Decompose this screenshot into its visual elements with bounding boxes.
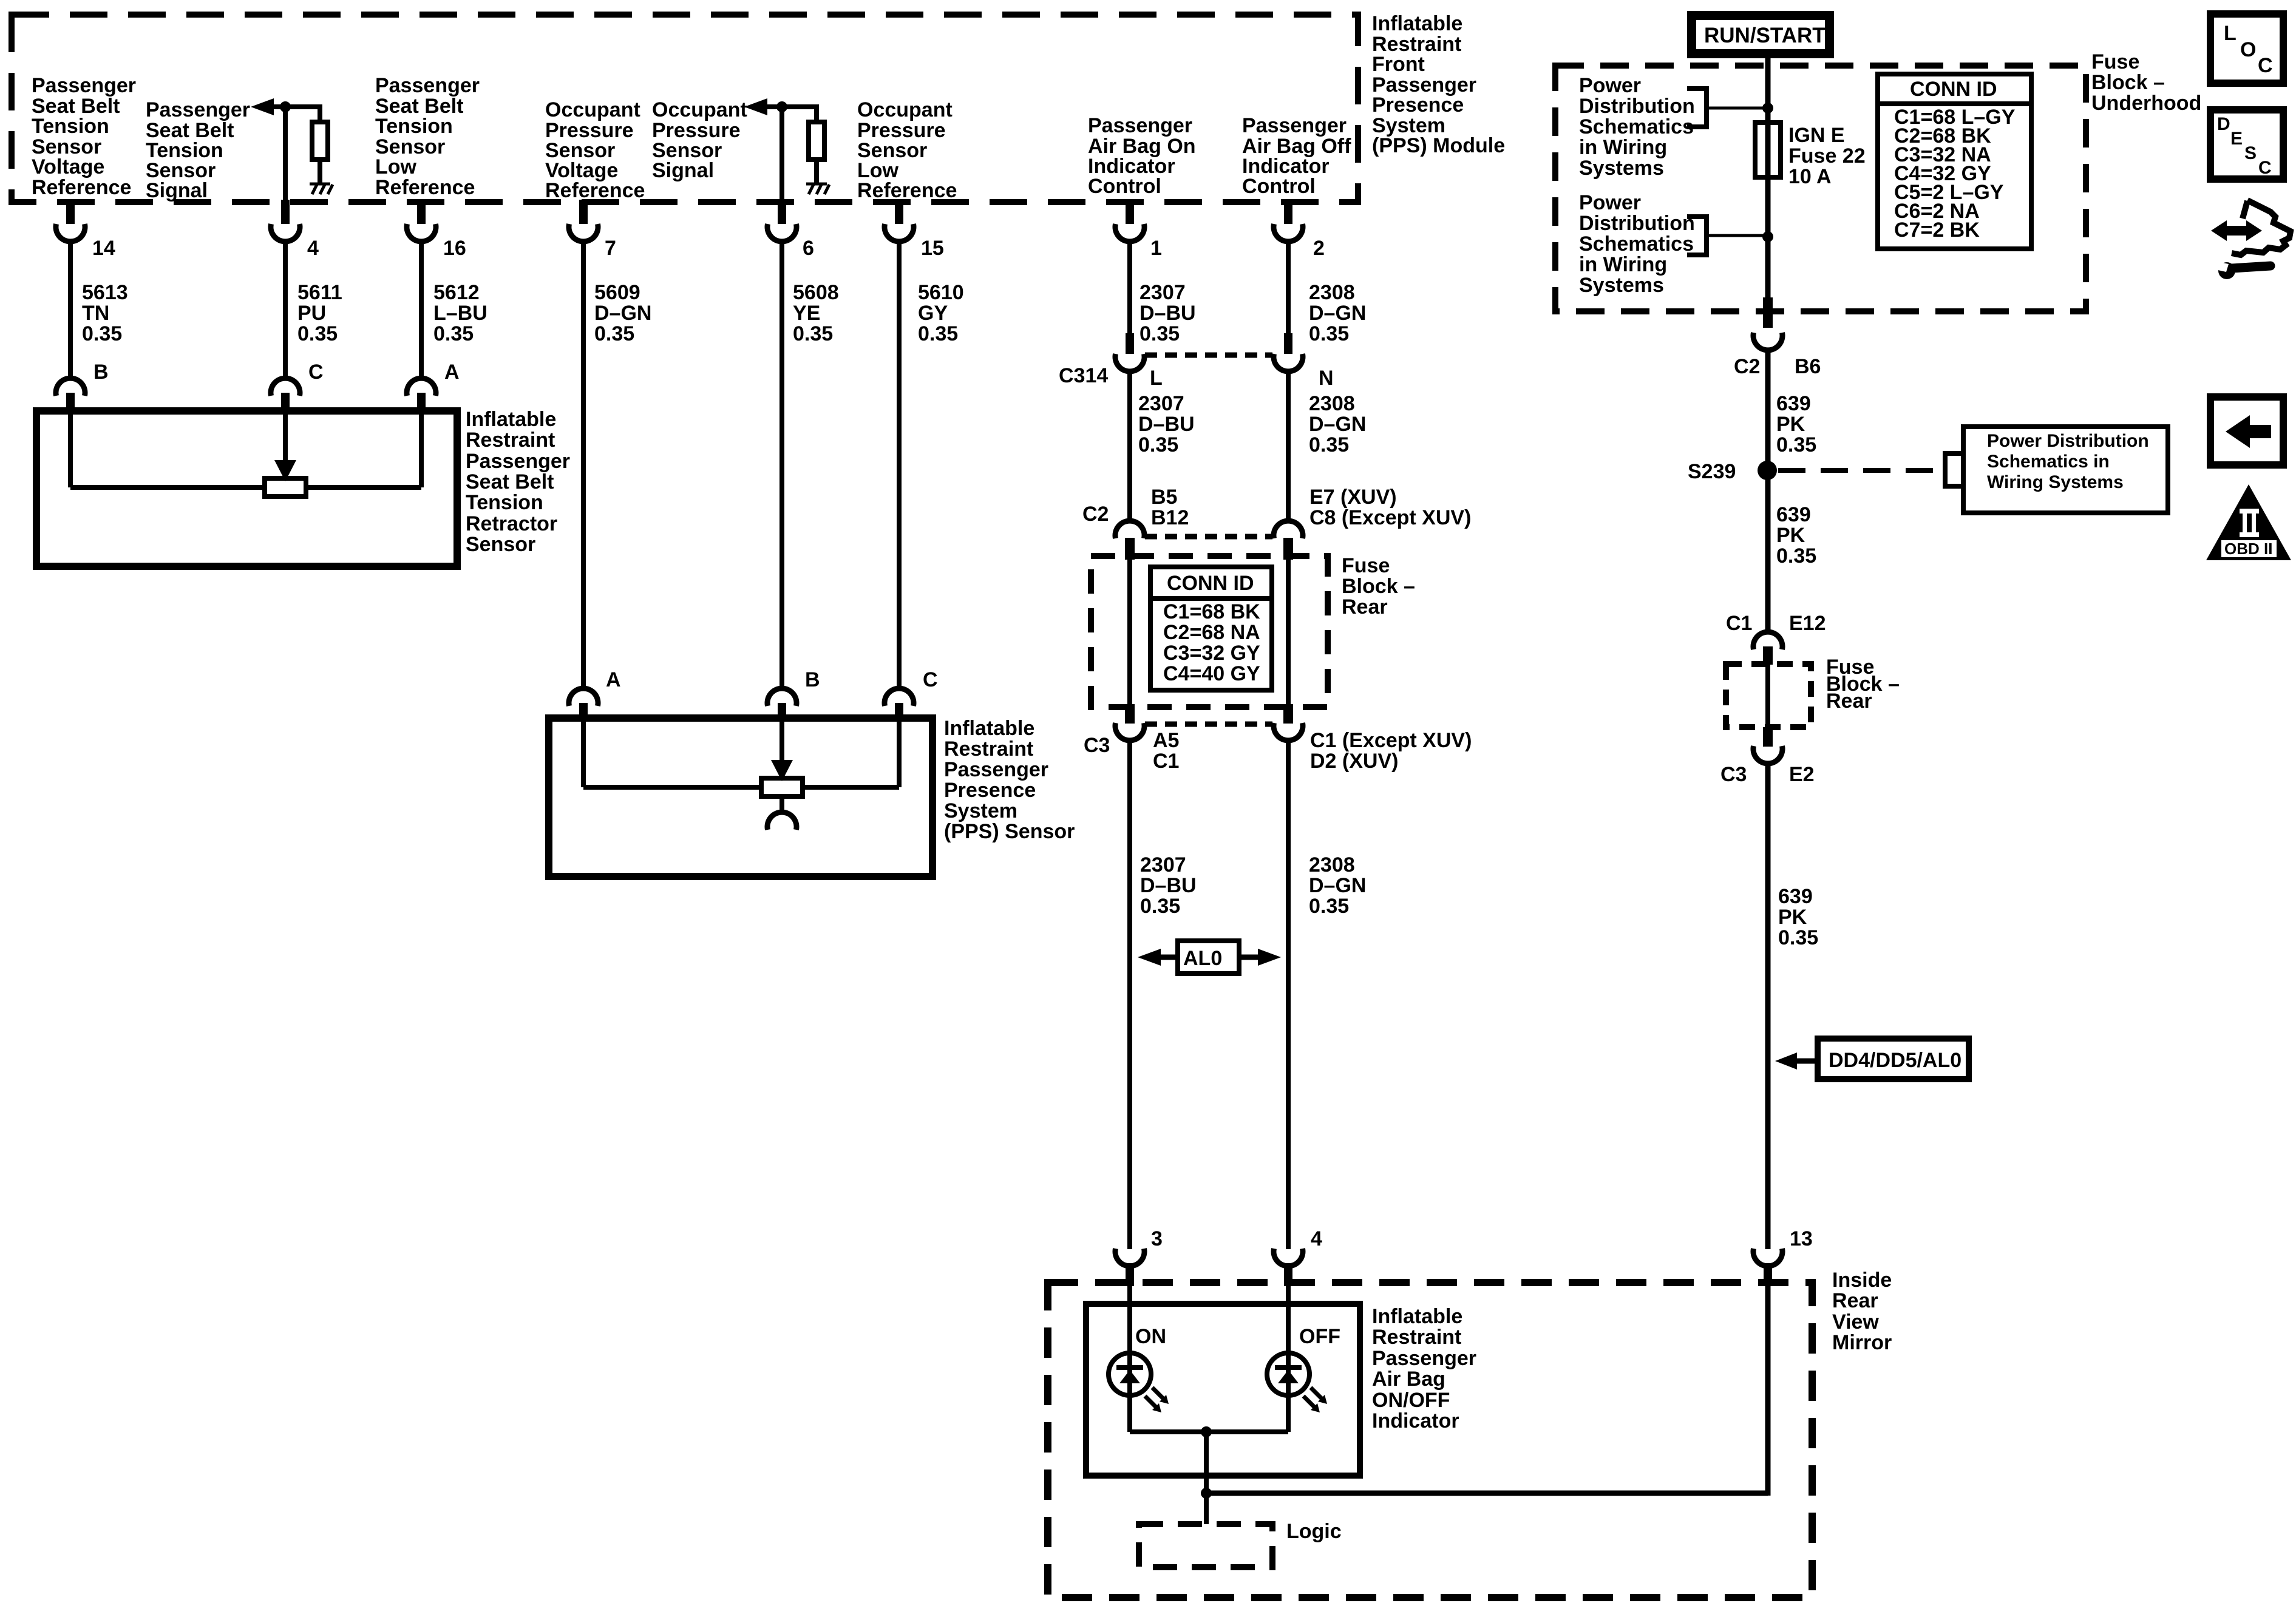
wire 5612 L-BU (pin 16 to retractor sensor A): [419, 239, 424, 378]
svg-text:C3: C3: [1720, 763, 1747, 786]
svg-text:C2: C2: [1734, 355, 1760, 378]
svg-text:CONN ID: CONN ID: [1167, 572, 1254, 595]
connector C (retractor sensor): [271, 378, 300, 413]
svg-text:O: O: [2240, 38, 2256, 61]
internal bus retractor sensor: [70, 485, 265, 490]
svg-text:Inflatable: Inflatable: [944, 717, 1034, 740]
icon data link / wrench: [2211, 200, 2291, 279]
wire below PPS resistor: [779, 796, 784, 813]
svg-text:D–GN: D–GN: [1309, 874, 1366, 897]
svg-text:IGN E: IGN E: [1788, 124, 1845, 147]
connector pin 1 (module): [1115, 200, 1144, 242]
svg-text:2308: 2308: [1309, 392, 1355, 415]
svg-text:Passenger: Passenger: [146, 98, 250, 121]
svg-text:Schematics in: Schematics in: [1987, 452, 2110, 472]
svg-text:639: 639: [1776, 392, 1811, 415]
svg-text:0.35: 0.35: [1140, 895, 1180, 918]
bracket to power distribution reference box: [1945, 453, 1962, 486]
svg-text:2308: 2308: [1309, 281, 1355, 304]
svg-text:Power: Power: [1579, 74, 1641, 97]
wiper arrow C inside retractor sensor: [283, 411, 288, 461]
svg-text:A: A: [444, 361, 460, 384]
wire 2307 D-BU (fuse block rear to mirror pin 3): [1127, 738, 1132, 1249]
junction node on OPS signal wire: [776, 101, 787, 112]
svg-text:Rear: Rear: [1826, 690, 1872, 713]
svg-text:5609: 5609: [594, 281, 640, 304]
svg-text:Inflatable: Inflatable: [1372, 1305, 1462, 1328]
ground (module internal, OPS signal): [806, 184, 829, 194]
wire 2308 D-GN (C314 to fuse block rear): [1286, 369, 1291, 521]
svg-text:0.35: 0.35: [1776, 433, 1816, 456]
wire A inside PPS sensor: [581, 718, 586, 787]
fuse IGN E Fuse 22 10 A: [1755, 123, 1781, 177]
junction to mirror feed line: [1201, 1488, 1212, 1499]
wire RUN/START to fuse: [1765, 58, 1771, 123]
svg-text:View: View: [1832, 1310, 1879, 1334]
svg-text:B6: B6: [1795, 355, 1821, 378]
RUN/START power symbol: [1687, 11, 1834, 58]
svg-text:Passenger: Passenger: [944, 758, 1048, 781]
inside rear view mirror dashed box: [1048, 1283, 1812, 1598]
svg-text:13: 13: [1790, 1227, 1813, 1250]
svg-text:Passenger: Passenger: [466, 450, 570, 473]
svg-text:5611: 5611: [297, 281, 342, 304]
svg-text:C1: C1: [1726, 612, 1752, 635]
svg-text:Signal: Signal: [652, 159, 714, 182]
light rays OFF lamp: [1303, 1388, 1327, 1412]
svg-text:0.35: 0.35: [1776, 544, 1816, 568]
svg-text:Systems: Systems: [1579, 157, 1664, 180]
wire pin 4 to OFF lamp and bus: [1286, 1286, 1291, 1432]
svg-text:D–GN: D–GN: [1309, 302, 1366, 325]
svg-text:C4=40 GY: C4=40 GY: [1163, 662, 1260, 685]
svg-text:Passenger: Passenger: [1088, 114, 1192, 137]
light rays ON lamp: [1145, 1388, 1169, 1412]
svg-text:Passenger: Passenger: [1242, 114, 1347, 137]
svg-text:Control: Control: [1088, 175, 1161, 198]
wire junction to pin 13 drop: [1206, 1491, 1768, 1496]
svg-text:Reference: Reference: [545, 179, 645, 202]
svg-text:RUN/START: RUN/START: [1704, 24, 1826, 47]
wire 639 PK (C2 to S239): [1765, 349, 1771, 470]
logic dashed box: [1139, 1524, 1272, 1567]
wire from arrow to internal resistor R2: [767, 107, 817, 122]
LED lamp OFF: [1267, 1353, 1309, 1395]
wire 5611 PU (pin 4 to retractor sensor C): [283, 239, 288, 378]
svg-text:Restraint: Restraint: [944, 737, 1033, 761]
svg-text:Systems: Systems: [1579, 274, 1664, 297]
svg-text:Seat Belt: Seat Belt: [466, 470, 554, 493]
connector A (retractor sensor): [407, 378, 436, 413]
svg-text:Block –: Block –: [2091, 71, 2165, 94]
svg-text:L–BU: L–BU: [433, 302, 487, 325]
svg-text:D: D: [2217, 114, 2230, 134]
fuse block underhood dashed box: [1555, 66, 2086, 311]
svg-text:PK: PK: [1776, 413, 1805, 436]
svg-text:C8 (Except XUV): C8 (Except XUV): [1309, 506, 1471, 529]
svg-text:A: A: [606, 668, 621, 691]
svg-text:Inflatable: Inflatable: [466, 408, 556, 431]
wire 5610 GY (pin 15 to PPS sensor C): [897, 239, 902, 688]
connector pin 7 (module): [569, 200, 598, 242]
connector pin 14 (module): [56, 200, 85, 242]
svg-text:D–GN: D–GN: [1309, 413, 1366, 436]
wire 639 PK (C3/E2 to mirror pin 13): [1765, 761, 1771, 1249]
svg-text:N: N: [1319, 367, 1334, 390]
svg-text:Presence: Presence: [1372, 93, 1464, 117]
wire OPS signal branch down to pin 6: [779, 107, 784, 200]
svg-text:4: 4: [307, 237, 319, 260]
svg-text:0.35: 0.35: [1309, 322, 1349, 345]
svg-text:Passenger: Passenger: [375, 74, 480, 97]
wire 5613 TN (pin 14 to retractor sensor B): [68, 239, 73, 378]
internal resistor R2 (occupant pressure signal pull-down): [809, 122, 824, 160]
svg-text:AL0: AL0: [1183, 947, 1222, 970]
svg-text:C3: C3: [1084, 734, 1110, 757]
svg-text:D2 (XUV): D2 (XUV): [1310, 750, 1398, 773]
connector C1 pin E12 (fuse block rear input): [1753, 632, 1782, 665]
retractor sensor potentiometer resistor: [265, 478, 306, 497]
svg-text:Reference: Reference: [375, 176, 475, 199]
connector pin 16 (module): [407, 200, 436, 242]
bracket and lead to junction (power distribution 2): [1687, 217, 1765, 255]
svg-text:16: 16: [443, 237, 466, 260]
svg-text:in Wiring: in Wiring: [1579, 253, 1667, 276]
svg-text:Indicator: Indicator: [1372, 1409, 1459, 1432]
svg-text:CONN ID: CONN ID: [1910, 78, 1997, 101]
wire 2308 D-GN (fuse block rear to mirror pin 4): [1286, 738, 1291, 1249]
svg-text:Schematics: Schematics: [1579, 232, 1694, 256]
svg-text:5613: 5613: [82, 281, 128, 304]
svg-text:Rear: Rear: [1342, 595, 1388, 619]
svg-text:E: E: [2230, 129, 2243, 149]
connector pin 4 (module): [271, 200, 300, 242]
svg-text:0.35: 0.35: [82, 322, 122, 345]
svg-text:D–BU: D–BU: [1138, 413, 1195, 436]
svg-text:Power: Power: [1579, 191, 1641, 214]
arrow into occupant pressure sensor signal text: [744, 98, 767, 115]
wire B inside retractor sensor: [68, 411, 73, 487]
svg-text:TN: TN: [82, 302, 109, 325]
svg-text:Tension: Tension: [466, 491, 543, 514]
svg-text:(PPS) Sensor: (PPS) Sensor: [944, 820, 1075, 843]
LED lamp ON: [1109, 1353, 1151, 1395]
svg-text:(PPS) Module: (PPS) Module: [1372, 134, 1505, 157]
svg-text:C: C: [923, 668, 938, 691]
svg-text:ON: ON: [1135, 1325, 1166, 1348]
icon back arrow: [2210, 397, 2283, 465]
svg-text:14: 14: [92, 237, 115, 260]
junction node above fuse: [1762, 103, 1773, 114]
svg-text:B: B: [93, 361, 109, 384]
junction on indicator bus: [1201, 1426, 1212, 1437]
harness marker AL0: [1138, 941, 1281, 974]
svg-text:Occupant: Occupant: [652, 98, 747, 121]
fuse block rear bottom dashed connector line: [1145, 722, 1272, 727]
svg-text:0.35: 0.35: [1778, 926, 1818, 949]
svg-text:Logic: Logic: [1286, 1520, 1342, 1543]
svg-text:2307: 2307: [1138, 392, 1184, 415]
svg-text:C1: C1: [1153, 750, 1179, 773]
connector B (retractor sensor): [56, 378, 85, 413]
open connector half below PPS resistor: [767, 812, 796, 830]
CONN ID table (fuse block underhood): [1878, 74, 2031, 249]
svg-text:Retractor: Retractor: [466, 512, 557, 535]
svg-text:D–BU: D–BU: [1140, 874, 1197, 897]
wire resistor R1 to ground: [318, 160, 322, 183]
svg-text:5608: 5608: [793, 281, 839, 304]
internal resistor R1 (seat belt tension signal pull-down): [312, 122, 328, 160]
svg-text:Fuse 22: Fuse 22: [1788, 144, 1866, 168]
svg-text:Passenger: Passenger: [32, 74, 136, 97]
connector pin 2 (module): [1274, 200, 1303, 242]
svg-text:2307: 2307: [1140, 281, 1186, 304]
svg-text:Distribution: Distribution: [1579, 212, 1695, 235]
wire through fuse block rear (left): [1127, 560, 1132, 704]
C314 dashed connector line: [1145, 353, 1272, 358]
svg-text:Presence: Presence: [944, 779, 1036, 802]
svg-text:ON/OFF: ON/OFF: [1372, 1389, 1450, 1412]
bracket and lead to junction (power distribution 1): [1687, 89, 1765, 127]
connector C3 pin A5/C1 (fuse block rear bottom, left): [1115, 704, 1144, 741]
wire from arrow to internal resistor R1: [274, 107, 320, 122]
svg-text:C: C: [2258, 54, 2273, 77]
junction node on signal wire: [280, 101, 291, 112]
svg-text:Reference: Reference: [857, 179, 957, 202]
wire signal branch down to pin 4: [283, 107, 288, 200]
svg-text:Front: Front: [1372, 53, 1425, 76]
svg-text:4: 4: [1311, 1227, 1322, 1250]
svg-text:B: B: [805, 668, 820, 691]
connector pin 3 (mirror): [1115, 1249, 1144, 1286]
svg-text:0.35: 0.35: [433, 322, 474, 345]
CONN ID table (fuse block rear): [1150, 567, 1272, 690]
in-line connector C314 right half (pin N): [1274, 333, 1303, 371]
wire 2307 D-BU (pin 1 to C314): [1127, 239, 1132, 334]
wire 639 PK (S239 to C1/E12): [1765, 470, 1771, 632]
wire pin 13 into mirror: [1765, 1286, 1771, 1496]
svg-text:Low: Low: [375, 155, 417, 178]
wire pin 3 to ON lamp and bus: [1127, 1286, 1132, 1432]
wire fuse to connector C2/B6: [1765, 177, 1771, 299]
svg-text:Restraint: Restraint: [1372, 1326, 1461, 1349]
wire through fuse block rear (right): [1286, 560, 1291, 704]
connector C2 pin B5/B12 (fuse block rear top, left): [1115, 521, 1144, 560]
svg-text:L: L: [2224, 22, 2237, 45]
connector pin 15 (module): [885, 200, 914, 242]
svg-text:Occupant: Occupant: [857, 98, 953, 121]
svg-text:S239: S239: [1688, 460, 1736, 483]
svg-text:Inflatable: Inflatable: [1372, 12, 1462, 35]
svg-text:0.35: 0.35: [918, 322, 958, 345]
connector pin C1/D2 (fuse block rear bottom, right): [1274, 704, 1303, 741]
indicator internal bus: [1130, 1429, 1288, 1434]
svg-text:Block –: Block –: [1342, 575, 1415, 598]
svg-text:C2: C2: [1082, 503, 1109, 526]
svg-text:Occupant: Occupant: [545, 98, 640, 121]
connector A (PPS sensor): [569, 688, 598, 721]
wire C inside PPS sensor: [897, 718, 902, 787]
svg-text:Inside: Inside: [1832, 1269, 1892, 1292]
circuit reference DD4/DD5/AL0: [1775, 1039, 1969, 1079]
svg-text:A5: A5: [1153, 729, 1179, 752]
svg-text:0.35: 0.35: [594, 322, 634, 345]
connector C (PPS sensor): [885, 688, 914, 721]
svg-text:0.35: 0.35: [1309, 433, 1349, 456]
svg-text:Underhood: Underhood: [2091, 92, 2201, 115]
svg-text:0.35: 0.35: [297, 322, 338, 345]
svg-text:2: 2: [1313, 237, 1325, 260]
connector C2 pin B6 (fuse block underhood output): [1753, 297, 1782, 350]
svg-text:5610: 5610: [918, 281, 964, 304]
wire 5608 YE (pin 6 to PPS sensor B): [779, 239, 784, 688]
PPS sensor box: [549, 718, 932, 876]
svg-text:L: L: [1150, 367, 1163, 390]
connector pin E7/C8 (fuse block rear top, right): [1274, 521, 1303, 560]
svg-text:Reference: Reference: [32, 176, 131, 199]
svg-text:GY: GY: [918, 302, 948, 325]
connector pin 13 (mirror): [1753, 1249, 1782, 1286]
fuse block rear top dashed connector line: [1145, 534, 1272, 540]
arrow into seat belt tension sensor signal text: [251, 98, 274, 115]
svg-text:Rear: Rear: [1832, 1289, 1878, 1312]
connector B (PPS sensor): [767, 688, 796, 721]
icon LOC: [2210, 14, 2283, 83]
svg-text:Air Bag: Air Bag: [1372, 1368, 1445, 1391]
svg-text:7: 7: [605, 237, 616, 260]
svg-text:Voltage: Voltage: [32, 155, 104, 178]
svg-text:Schematics: Schematics: [1579, 115, 1694, 138]
svg-text:D–GN: D–GN: [594, 302, 651, 325]
splice S239: [1758, 461, 1777, 480]
PPS sensor potentiometer resistor: [761, 778, 803, 796]
svg-text:OBD II: OBD II: [2224, 540, 2272, 558]
svg-text:C3=32 GY: C3=32 GY: [1163, 642, 1260, 665]
svg-text:Control: Control: [1242, 175, 1316, 198]
svg-text:Fuse: Fuse: [1342, 554, 1390, 577]
wire through fuse block rear (right): [1765, 664, 1770, 727]
svg-text:Restraint: Restraint: [466, 429, 555, 452]
power distribution reference box: [1963, 427, 2168, 513]
svg-text:639: 639: [1776, 503, 1811, 526]
svg-text:S: S: [2244, 143, 2257, 163]
svg-text:0.35: 0.35: [1140, 322, 1180, 345]
svg-text:0.35: 0.35: [1309, 895, 1349, 918]
svg-text:2307: 2307: [1140, 853, 1186, 876]
svg-text:Sensor: Sensor: [466, 533, 535, 556]
wiper arrow B inside PPS sensor: [779, 718, 784, 761]
wire 2307 D-BU (C314 to fuse block rear C2): [1127, 369, 1132, 521]
svg-text:6: 6: [803, 237, 814, 260]
svg-text:Power Distribution: Power Distribution: [1987, 431, 2149, 451]
svg-text:in Wiring: in Wiring: [1579, 136, 1667, 159]
svg-text:YE: YE: [793, 302, 820, 325]
svg-text:E12: E12: [1789, 612, 1826, 635]
fuse block rear dashed box: [1091, 556, 1328, 707]
svg-text:B12: B12: [1151, 506, 1189, 529]
ground (module internal, seat belt signal): [310, 184, 333, 194]
dashed reference line from S239: [1778, 468, 1941, 473]
svg-text:C1 (Except XUV): C1 (Except XUV): [1310, 729, 1472, 752]
svg-text:C: C: [308, 361, 324, 384]
svg-text:2308: 2308: [1309, 853, 1355, 876]
svg-text:0.35: 0.35: [793, 322, 833, 345]
svg-text:DD4/DD5/AL0: DD4/DD5/AL0: [1829, 1049, 1961, 1072]
svg-text:C: C: [2258, 158, 2272, 178]
svg-text:Distribution: Distribution: [1579, 95, 1695, 118]
svg-text:E2: E2: [1789, 763, 1815, 786]
svg-text:639: 639: [1778, 885, 1813, 908]
svg-text:PK: PK: [1778, 906, 1807, 929]
wire bus to logic junction: [1204, 1432, 1209, 1524]
icon OBD II: [2206, 484, 2291, 560]
svg-text:0.35: 0.35: [1138, 433, 1178, 456]
wire 2308 D-GN (pin 2 to C314): [1286, 239, 1291, 334]
svg-text:OFF: OFF: [1299, 1325, 1340, 1348]
connector C3 pin E2 (fuse block rear output): [1753, 727, 1782, 764]
wire 5609 D-GN (pin 7 to PPS sensor A): [581, 239, 586, 688]
wire A inside retractor sensor: [419, 411, 424, 487]
svg-text:C2=68 NA: C2=68 NA: [1163, 621, 1260, 644]
svg-text:1: 1: [1150, 237, 1162, 260]
in-line connector C314 left half (pin L): [1115, 333, 1144, 371]
junction node below fuse branch 2: [1762, 231, 1773, 242]
svg-text:C1=68 BK: C1=68 BK: [1163, 600, 1260, 623]
svg-text:PU: PU: [297, 302, 326, 325]
air bag on/off indicator box: [1086, 1304, 1360, 1476]
svg-text:E7 (XUV): E7 (XUV): [1309, 486, 1397, 509]
svg-text:System: System: [944, 799, 1017, 822]
connector pin 4 (mirror): [1274, 1249, 1303, 1286]
svg-text:15: 15: [921, 237, 944, 260]
PPS module dashed box: [12, 15, 1358, 202]
icon DESC: [2210, 110, 2283, 179]
svg-text:10 A: 10 A: [1788, 165, 1832, 188]
svg-text:Tension: Tension: [32, 115, 109, 138]
svg-text:Tension: Tension: [375, 115, 453, 138]
fuse block rear (right) dashed box: [1726, 664, 1811, 727]
seat belt tension retractor sensor box: [36, 411, 457, 566]
svg-text:Signal: Signal: [146, 179, 208, 202]
svg-text:5612: 5612: [433, 281, 480, 304]
svg-text:Fuse: Fuse: [2091, 50, 2139, 73]
internal bus PPS sensor: [583, 785, 761, 790]
svg-text:Wiring Systems: Wiring Systems: [1987, 472, 2124, 492]
svg-text:D–BU: D–BU: [1140, 302, 1196, 325]
svg-text:C7=2 BK: C7=2 BK: [1894, 219, 1980, 242]
svg-text:Mirror: Mirror: [1832, 1331, 1892, 1354]
svg-text:B5: B5: [1151, 486, 1177, 509]
wire resistor R2 to ground: [814, 160, 819, 183]
connector pin 6 (module): [767, 200, 796, 242]
svg-text:C314: C314: [1059, 364, 1108, 387]
svg-text:3: 3: [1151, 1227, 1163, 1250]
svg-text:Passenger: Passenger: [1372, 1347, 1476, 1370]
svg-text:PK: PK: [1776, 524, 1805, 547]
